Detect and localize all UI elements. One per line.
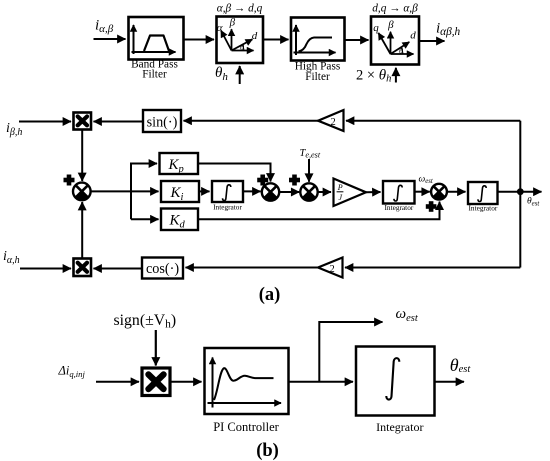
wire band pass to ab-dq <box>184 39 214 41</box>
summing junction 2 <box>262 183 279 200</box>
label High Pass Filter <box>295 61 341 83</box>
wire sign down to multiplier b <box>155 330 157 366</box>
wire sum2 to sum3 <box>279 191 299 193</box>
wire i_beta,h to multiplier <box>19 121 71 123</box>
wire cos to multiplier <box>94 268 143 270</box>
block high pass filter <box>291 18 345 61</box>
svg-text:Filter: Filter <box>142 69 167 81</box>
block integrator1 <box>212 181 243 211</box>
gain triangle 2 bottom <box>318 258 343 278</box>
multiplier X box b <box>142 368 170 396</box>
label delta i_q,inj <box>58 364 86 380</box>
block dq to ab transform <box>371 17 419 65</box>
label (b) <box>256 441 279 461</box>
svg-text:d: d <box>252 30 258 42</box>
svg-text:Integrator: Integrator <box>469 203 498 212</box>
svg-text:iα,h: iα,h <box>3 249 20 266</box>
output wire theta_est b <box>435 381 465 383</box>
block integrator b <box>356 347 435 416</box>
svg-text:d,q → α,β: d,q → α,β <box>372 3 418 15</box>
wire Kp to sum2 <box>198 164 271 182</box>
svg-text:iα,β: iα,β <box>95 17 114 35</box>
wire input to band pass filter <box>94 38 126 40</box>
svg-text:q: q <box>373 22 379 34</box>
summing junction 3 <box>300 183 317 200</box>
label dq to ab <box>372 3 418 15</box>
svg-text:2: 2 <box>331 117 336 128</box>
wire sum4 to integrator3 <box>447 191 466 193</box>
wire sum3 to gain P/J <box>318 191 331 193</box>
label Integrator b <box>376 420 423 434</box>
plus sign at sum left <box>64 175 75 186</box>
wire integrator2 to sum4 <box>415 191 430 193</box>
svg-text:θest: θest <box>450 355 472 375</box>
svg-text:2: 2 <box>330 264 335 275</box>
wire Kd feedback to sum4 <box>198 202 440 220</box>
wire integrator1 to sum2 <box>243 190 261 192</box>
multiplier X box bottom <box>74 259 92 277</box>
label sign(+-Vh) <box>114 312 177 331</box>
block band pass filter <box>129 17 184 60</box>
plus sign sum3 <box>289 175 300 186</box>
svg-text:Integrator: Integrator <box>385 203 414 212</box>
wire P/J to integrator2 <box>366 191 381 193</box>
svg-text:d: d <box>410 29 416 41</box>
label (a) <box>259 285 281 305</box>
svg-text:Integrator: Integrator <box>376 420 423 434</box>
wire PI controller to integrator b <box>289 381 354 383</box>
svg-text:cos(·): cos(·) <box>146 261 179 277</box>
branch vertical wire <box>130 164 132 220</box>
block Ki <box>161 181 199 203</box>
gain triangle P/J <box>334 179 367 207</box>
svg-text:θh: θh <box>215 65 228 83</box>
label omega_est small <box>419 174 434 185</box>
label PI Controller <box>213 420 279 434</box>
block cos <box>142 258 183 279</box>
svg-text:(a): (a) <box>259 285 281 305</box>
wire Ki to integrator1 <box>199 190 210 192</box>
svg-text:α: α <box>217 22 223 34</box>
wire sin to multiplier <box>94 121 144 123</box>
wire multiplier down to sum <box>81 130 83 182</box>
output wire i_abh <box>420 40 445 42</box>
wire branch up to omega_est <box>319 322 382 382</box>
gain triangle 2 top <box>318 110 344 131</box>
svg-text:α,β → d,q: α,β → d,q <box>217 3 263 15</box>
block Kd <box>161 209 198 231</box>
svg-text:Δiq,inj: Δiq,inj <box>58 364 86 380</box>
wire sum out to branch <box>91 190 131 192</box>
block ab to dq transform <box>217 16 264 63</box>
wire branch to Kp <box>130 163 157 165</box>
svg-text:(b): (b) <box>256 441 279 461</box>
svg-text:Te,est: Te,est <box>300 148 321 160</box>
svg-text:θ: θ <box>399 46 403 56</box>
svg-text:θ: θ <box>240 42 244 52</box>
output arrow theta_est <box>520 191 541 193</box>
plus sign sum2 <box>257 175 268 186</box>
wire gain 2 bottom to cos <box>186 267 319 269</box>
label omega_est b <box>396 306 419 324</box>
wire bottom multiplier up to sum <box>81 202 83 258</box>
svg-text:Integrator: Integrator <box>213 202 242 211</box>
wire branch to Ki <box>131 190 159 192</box>
svg-text:β: β <box>229 16 236 28</box>
block integrator3 <box>468 182 498 212</box>
svg-text:iαβ,h: iαβ,h <box>436 20 461 38</box>
label i_alpha,h <box>3 249 20 266</box>
wire branch to Kd <box>131 218 159 220</box>
label 2 x theta_h <box>356 68 391 85</box>
block PI controller <box>205 348 289 414</box>
node theta_est junction dot <box>517 188 524 195</box>
feedback vertical wire <box>519 121 521 268</box>
svg-text:Filter: Filter <box>305 71 330 83</box>
svg-text:sin(·): sin(·) <box>147 114 178 130</box>
svg-text:ωest: ωest <box>419 174 434 185</box>
label i_beta,h <box>6 121 22 138</box>
label ab to dq <box>217 3 263 15</box>
wire feedback to gain 2 bottom <box>345 267 520 269</box>
wire gain 2 top to sin <box>184 120 319 122</box>
wire multiplier b to PI controller <box>170 381 202 383</box>
block sin <box>143 110 181 132</box>
wire high pass to dq-ab <box>345 39 369 41</box>
label T_e,est <box>300 148 321 160</box>
svg-text:P: P <box>337 183 343 192</box>
label theta_est b <box>450 355 472 375</box>
label theta_h <box>215 65 228 83</box>
wire feedback to gain 2 top <box>346 120 520 122</box>
svg-text:J: J <box>339 193 343 202</box>
plus sign sum4 <box>426 201 437 212</box>
wire 2theta_h up into block <box>395 68 397 83</box>
input label i_alpha,beta <box>95 17 114 35</box>
multiplier X box top <box>74 113 92 130</box>
svg-text:ωest: ωest <box>396 306 419 324</box>
wire ab-dq to high pass <box>264 39 289 41</box>
svg-text:β: β <box>387 19 394 31</box>
wire theta_h up into block <box>239 66 241 84</box>
svg-text:iβ,h: iβ,h <box>6 121 22 138</box>
wire T_e,est down to sum3 <box>308 159 310 182</box>
wire i_alpha,h to multiplier <box>20 268 71 270</box>
block Kp <box>160 153 199 175</box>
output label i_alphabeta,h <box>436 20 461 38</box>
wire delta i to multiplier b <box>96 381 139 383</box>
svg-text:PI Controller: PI Controller <box>213 420 279 434</box>
label theta_est small <box>527 197 540 208</box>
label Band Pass Filter <box>131 58 178 80</box>
svg-text:θest: θest <box>527 197 540 208</box>
svg-text:sign(±Vh): sign(±Vh) <box>114 312 177 331</box>
block integrator2 <box>383 181 415 212</box>
svg-text:2 × θh: 2 × θh <box>356 68 391 85</box>
summing junction 4 <box>431 184 447 200</box>
wire integrator3 to node <box>498 191 521 193</box>
summing junction left <box>73 183 91 201</box>
